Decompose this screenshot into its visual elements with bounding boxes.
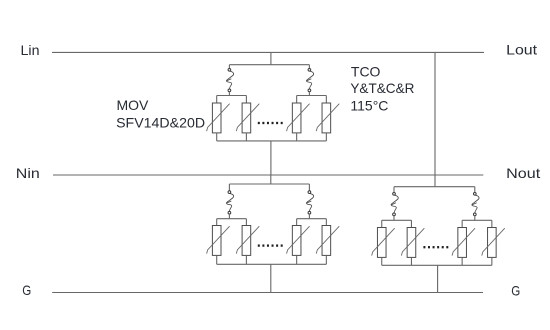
ellipsis dots (L-N bank more MOVs) xyxy=(258,122,283,124)
svg-text:TCO: TCO xyxy=(351,64,381,80)
wire RV5 to bottom bar xyxy=(216,255,218,264)
wire stub to RV1 xyxy=(216,96,218,104)
wire L rail (Lin-Lout) xyxy=(52,51,484,53)
wire N-G bank stub to F4 xyxy=(308,184,310,191)
wire RV1 to bottom bar xyxy=(216,133,218,141)
wire G rail (G-G) xyxy=(52,292,483,294)
wire L-G bank stub to F6 xyxy=(474,187,476,193)
varistor MOV RV7 xyxy=(287,226,310,256)
wire RV8 to bottom bar xyxy=(325,255,327,264)
varistor MOV RV9 xyxy=(372,228,395,258)
svg-text:Nin: Nin xyxy=(16,165,40,181)
thermal fuse TCO F6 xyxy=(472,192,479,215)
wire F4 to pair bar xyxy=(308,214,310,219)
wire N-G bank pair 2 top bar xyxy=(297,218,327,220)
wire L-G bank split bar xyxy=(394,186,475,188)
svg-text:Lout: Lout xyxy=(506,42,537,58)
varistor MOV RV6 xyxy=(236,226,259,256)
wire L-N bank pair 2 top bar xyxy=(297,95,327,97)
wire F2 to pair bar xyxy=(308,92,310,96)
wire F5 to pair bar xyxy=(393,216,395,221)
wire N rail (Nin-Nout) xyxy=(53,174,483,176)
svg-text:SFV14D&20D: SFV14D&20D xyxy=(116,115,205,131)
thermal fuse TCO F1 xyxy=(226,68,233,91)
wire N-G bank bottom stub xyxy=(270,264,272,292)
wire L-N bank bottom bar xyxy=(217,140,327,142)
varistor MOV RV11 xyxy=(452,228,475,258)
svg-text:Y&T&C&R: Y&T&C&R xyxy=(350,80,414,96)
wire RV7 to bottom bar xyxy=(296,255,298,264)
wire F1 to pair bar xyxy=(228,92,230,96)
wire L-G bank stub to F5 xyxy=(393,187,395,193)
wire RV4 to bottom bar xyxy=(325,133,327,141)
wire RV2 to bottom bar xyxy=(245,133,247,141)
varistor MOV RV5 xyxy=(207,226,230,256)
varistor MOV RV3 xyxy=(287,103,310,133)
wire N-G bank top stub xyxy=(270,175,272,184)
wire stub to RV3 xyxy=(296,96,298,104)
wire N-G bank pair 1 top bar xyxy=(217,218,247,220)
thermal fuse TCO F5 xyxy=(391,192,398,215)
wire L-N bank stub to F2 xyxy=(308,65,310,69)
svg-text:G: G xyxy=(511,282,520,298)
wire F6 to pair bar xyxy=(474,216,476,221)
wire RV9 to bottom bar xyxy=(381,257,383,265)
wire stub to RV11 xyxy=(461,220,463,227)
wire N-G bank split bar xyxy=(229,183,309,185)
wire stub to RV10 xyxy=(410,220,412,227)
wire stub to RV5 xyxy=(216,219,218,226)
wire L-N bank top stub xyxy=(270,52,272,64)
wire stub to RV12 xyxy=(491,220,493,227)
wire N-G bank bottom bar xyxy=(217,263,327,265)
varistor MOV RV4 xyxy=(316,103,339,133)
wire F3 to pair bar xyxy=(228,214,230,219)
wire RV6 to bottom bar xyxy=(245,255,247,264)
wire RV12 to bottom bar xyxy=(491,257,493,265)
wire L-G bank bottom bar xyxy=(382,264,492,266)
wire N-G bank stub to F3 xyxy=(228,184,230,191)
wire stub to RV8 xyxy=(325,219,327,226)
wire L-N bank split bar xyxy=(229,64,309,66)
wire stub to RV9 xyxy=(381,220,383,227)
thermal fuse TCO F2 xyxy=(306,68,313,91)
wire L-G bank top stub xyxy=(434,186,436,188)
varistor MOV RV12 xyxy=(482,228,505,258)
wire L-N bank bottom stub xyxy=(270,141,272,175)
thermal fuse TCO F4 xyxy=(306,191,313,214)
wire RV11 to bottom bar xyxy=(461,257,463,265)
wire stub to RV6 xyxy=(245,219,247,226)
varistor MOV RV2 xyxy=(236,103,259,133)
wire RV3 to bottom bar xyxy=(296,133,298,141)
wire L-G bank pair 2 top bar xyxy=(462,219,492,221)
ellipsis dots (L-G bank more MOVs) xyxy=(423,246,448,248)
wire L-G bank pair 1 top bar xyxy=(382,219,412,221)
wire stub to RV4 xyxy=(325,96,327,104)
thermal fuse TCO F3 xyxy=(226,191,233,214)
svg-text:Nout: Nout xyxy=(506,165,540,181)
ellipsis dots (N-G bank more MOVs) xyxy=(258,244,283,246)
varistor MOV RV1 xyxy=(207,103,230,133)
wire L-N bank pair 1 top bar xyxy=(217,95,247,97)
varistor MOV RV8 xyxy=(316,226,339,256)
varistor MOV RV10 xyxy=(401,228,424,258)
svg-text:Lin: Lin xyxy=(21,42,40,58)
wire RV10 to bottom bar xyxy=(410,257,412,265)
wire L-N bank stub to F1 xyxy=(228,65,230,69)
wire stub to RV2 xyxy=(245,96,247,104)
svg-text:MOV: MOV xyxy=(117,97,150,113)
svg-text:115°C: 115°C xyxy=(350,98,388,114)
wire L rail to L-G bank (crosses N rail) xyxy=(434,52,436,186)
wire stub to RV7 xyxy=(296,219,298,226)
svg-text:G: G xyxy=(22,282,31,298)
wire L-G bank bottom stub xyxy=(437,265,439,292)
